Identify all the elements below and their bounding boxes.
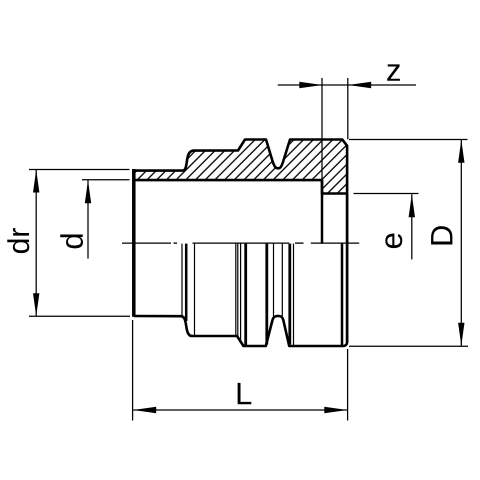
- D arrow up: [458, 140, 464, 163]
- feature line x=289.8: [288, 244, 291, 345]
- e arrow up: [409, 194, 415, 217]
- centerline dot 2: [295, 242, 304, 244]
- label z: [387, 64, 400, 80]
- L arrow right-pointing: [324, 407, 347, 413]
- left edge of body: [132, 169, 136, 317]
- body section outline (top half, hatched cross-section): [134, 140, 347, 194]
- feature line x=293.5: [293, 244, 295, 345]
- dimension dr extension top: [29, 169, 130, 171]
- feature line x=342: [341, 243, 344, 347]
- dimension dr extension bottom: [29, 315, 130, 317]
- feature line x=182: [181, 244, 183, 317]
- d arrow up: [85, 180, 91, 203]
- label dr: [7, 228, 29, 253]
- feature line x=266.8: [265, 244, 268, 345]
- centerline dash 2: [193, 242, 290, 244]
- dimension L extension right: [347, 349, 349, 421]
- D arrow down: [458, 323, 464, 346]
- socket inner face edge: [321, 180, 324, 244]
- dimension dr line: [35, 170, 37, 317]
- dr arrow up: [33, 170, 39, 193]
- feature line x=237.8: [237, 244, 239, 337]
- z arrow left-pointing: [348, 82, 371, 88]
- feature line x=282.3: [281, 244, 283, 319]
- dimension D line: [460, 140, 462, 346]
- dimension e extension: [354, 193, 419, 195]
- centerline dash 3: [311, 242, 359, 244]
- dimension L line: [133, 409, 347, 411]
- feature line x=194.5: [194, 244, 196, 335]
- dimension z line: [278, 84, 416, 86]
- dimension d extension: [82, 179, 130, 181]
- centerline dot 1: [174, 242, 178, 244]
- label D: [431, 226, 452, 244]
- feature line x=186: [185, 244, 188, 321]
- dimension D extension top: [349, 139, 468, 141]
- bottom exterior profile: [134, 316, 347, 346]
- dimension L extension left: [132, 320, 134, 421]
- label L: [238, 383, 252, 404]
- feature line x=245.7: [244, 244, 247, 345]
- right edge of body: [346, 194, 349, 343]
- dimension e line: [411, 194, 413, 259]
- feature line x=273.5: [273, 244, 275, 319]
- z arrow right-pointing: [299, 82, 322, 88]
- L arrow left-pointing: [133, 407, 156, 413]
- centerline dash 1: [122, 242, 171, 244]
- dimension D extension bottom: [349, 345, 468, 347]
- dimension z extension left: [321, 78, 323, 180]
- label e: [385, 234, 402, 249]
- dimension d line: [87, 180, 89, 258]
- dr arrow down: [33, 293, 39, 316]
- label d: [60, 234, 83, 248]
- dimension z extension right: [347, 78, 349, 139]
- feature line x=240.6: [240, 244, 242, 342]
- feature line x=235.8: [235, 244, 237, 336]
